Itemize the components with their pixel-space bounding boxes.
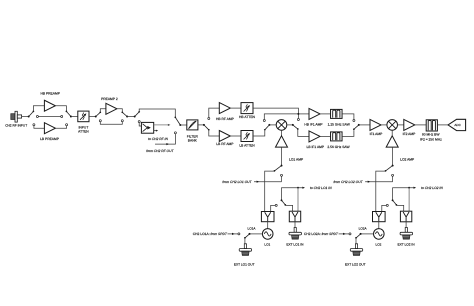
svg-text:CH2 LO2A: from SPDT: CH2 LO2A: from SPDT: [304, 232, 339, 236]
svg-text:LB PREAMP: LB PREAMP: [40, 137, 60, 141]
svg-text:IF2 AMP: IF2 AMP: [403, 132, 416, 136]
svg-text:to CH2 LO2 IN: to CH2 LO2 IN: [421, 186, 443, 190]
svg-text:ATTEN: ATTEN: [78, 130, 89, 134]
svg-text:to CH2 LO1 IN: to CH2 LO1 IN: [310, 186, 332, 190]
svg-text:IF2 = 250 MHz: IF2 = 250 MHz: [420, 138, 442, 142]
svg-text:HB PREAMP: HB PREAMP: [40, 92, 60, 96]
svg-text:LO2: LO2: [375, 243, 381, 247]
svg-text:LO2 AMP: LO2 AMP: [400, 158, 415, 162]
svg-text:to CH2 RF IN: to CH2 RF IN: [148, 137, 168, 141]
svg-text:LB ATTEN: LB ATTEN: [239, 143, 255, 147]
svg-text:HB IF1 AMP: HB IF1 AMP: [304, 123, 323, 127]
svg-text:CH2 LO1A: from SPDT: CH2 LO1A: from SPDT: [193, 232, 228, 236]
svg-text:EXT LO2 IN: EXT LO2 IN: [397, 243, 415, 247]
svg-text:from CH2 LO1 OUT: from CH2 LO1 OUT: [222, 180, 252, 184]
svg-text:80 MHz BW: 80 MHz BW: [422, 133, 440, 137]
svg-text:PREAMP 2: PREAMP 2: [101, 97, 118, 101]
svg-text:ADC: ADC: [454, 123, 461, 127]
svg-text:LO1 AMP: LO1 AMP: [289, 158, 304, 162]
svg-text:EXT LO1 OUT: EXT LO1 OUT: [234, 262, 255, 266]
svg-text:EXT LO2 OUT: EXT LO2 OUT: [345, 262, 366, 266]
svg-text:BANK: BANK: [188, 138, 198, 142]
svg-text:LB RF AMP: LB RF AMP: [216, 142, 234, 146]
svg-text:LO1A: LO1A: [248, 227, 257, 231]
svg-text:HB RF AMP: HB RF AMP: [216, 117, 235, 121]
svg-text:LO1: LO1: [264, 243, 270, 247]
svg-text:2.56 GHz SAW: 2.56 GHz SAW: [327, 145, 350, 149]
svg-text:CH2 RF INPUT: CH2 RF INPUT: [5, 124, 27, 128]
svg-text:1.25 GHz SAW: 1.25 GHz SAW: [328, 123, 351, 127]
svg-text:from CH2 LO2 OUT: from CH2 LO2 OUT: [334, 180, 364, 184]
svg-text:LO2A: LO2A: [359, 227, 368, 231]
svg-text:HB ATTEN: HB ATTEN: [239, 115, 255, 119]
svg-text:LB IF1 AMP: LB IF1 AMP: [307, 145, 325, 149]
svg-text:IF1 AMP: IF1 AMP: [370, 132, 383, 136]
svg-text:from CH2 RF OUT: from CH2 RF OUT: [146, 149, 174, 153]
svg-text:EXT LO1 IN: EXT LO1 IN: [286, 243, 304, 247]
